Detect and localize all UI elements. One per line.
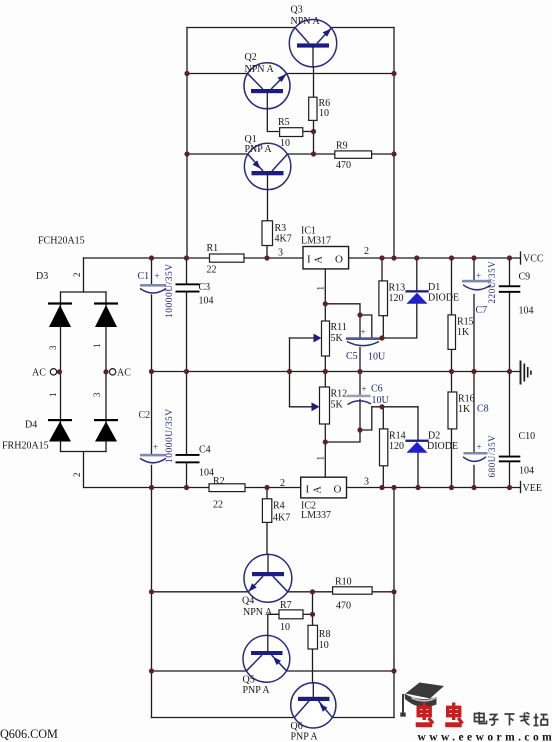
svg-text:LM317: LM317 — [301, 236, 331, 247]
svg-text:C6: C6 — [371, 384, 383, 395]
svg-text:5K: 5K — [331, 333, 344, 344]
capacitor C3 (ceramic) — [176, 283, 200, 285]
wire mid ground rail y=371.5 — [152, 371, 520, 373]
wire C9 bottom lead — [509, 293, 511, 372]
svg-text:R5: R5 — [278, 117, 290, 128]
svg-text:DIODE: DIODE — [428, 293, 459, 304]
svg-text:+: + — [477, 442, 482, 452]
wire bridge D3 top — [61, 291, 107, 293]
wire rail y=73.5 right of Q2 — [286, 73, 394, 75]
svg-text:Q606.COM: Q606.COM — [0, 727, 58, 741]
wire rail to R8 top — [312, 592, 314, 626]
resistor R9 — [335, 151, 372, 158]
transistor Q4 — [244, 554, 292, 602]
wire C4 upper lead — [186, 372, 188, 455]
wire right vertical x=394 top section — [393, 28, 395, 259]
svg-text:3: 3 — [364, 477, 369, 488]
wire R5 right to node — [303, 131, 314, 133]
capacitor C8 (electrolytic 680U/35V) — [464, 452, 488, 455]
svg-text:120: 120 — [389, 293, 404, 304]
svg-text:PNP A: PNP A — [291, 732, 319, 742]
wire R4 bottom to Q4 base — [266, 522, 268, 572]
svg-text:2: 2 — [280, 478, 285, 489]
wire C5 bottom lead to mid rail — [359, 348, 361, 372]
resistor R1 — [210, 254, 245, 262]
wire D2 bottom lead — [417, 453, 419, 487]
ground symbol — [520, 361, 522, 385]
svg-text:1: 1 — [316, 456, 326, 461]
wire R14 bottom lead — [382, 466, 384, 488]
svg-text:104: 104 — [519, 306, 534, 317]
wire rail y=258 bridge to R1 — [84, 257, 210, 259]
capacitor C5 (electrolytic 10U) — [346, 337, 381, 340]
wire R13 top lead — [381, 258, 383, 281]
wire C5 side jog — [360, 315, 372, 337]
svg-text:Q5: Q5 — [243, 675, 255, 686]
svg-text:1: 1 — [316, 286, 326, 291]
svg-text:D4: D4 — [25, 420, 37, 431]
wire R14 top lead — [382, 407, 384, 429]
capacitor C2 (electrolytic) — [140, 454, 166, 457]
AC terminal right — [109, 369, 115, 375]
wire top rail y=27.5 right of Q3 — [331, 27, 394, 29]
watermark graduation cap — [400, 683, 444, 717]
svg-text:22: 22 — [207, 265, 217, 276]
svg-text:D3: D3 — [36, 271, 48, 282]
wire R3 bottom to rail y=258 — [266, 246, 268, 259]
terminal tick VEE — [520, 482, 522, 493]
svg-text:D2: D2 — [428, 431, 440, 442]
wire rail y=154 left of Q1 — [187, 153, 248, 155]
resistor R6 — [309, 97, 317, 120]
resistor R10 — [333, 587, 373, 594]
wire y=406.8 jog to D2 — [372, 406, 418, 408]
watermark site name characters — [475, 712, 548, 726]
resistor R14 — [380, 429, 388, 466]
svg-text:R13: R13 — [389, 283, 406, 294]
svg-text:NPN A: NPN A — [291, 16, 321, 27]
svg-text:C7: C7 — [476, 305, 488, 316]
IC U2 LM337 regulator box — [301, 477, 347, 498]
svg-text:Q2: Q2 — [245, 52, 257, 63]
svg-text:C5: C5 — [346, 351, 358, 362]
svg-text:104: 104 — [199, 296, 214, 307]
svg-text:4K7: 4K7 — [275, 234, 292, 245]
resistor R5 — [280, 128, 303, 137]
svg-text:2: 2 — [72, 473, 82, 478]
svg-text:R16: R16 — [458, 394, 475, 405]
wire mid rail to R12 top — [324, 372, 326, 388]
svg-text:10: 10 — [319, 108, 329, 119]
wire R15 bottom lead — [451, 349, 453, 371]
svg-text:R8: R8 — [319, 629, 331, 640]
wire rail y=487.5 bridge to R2 — [84, 487, 210, 489]
wire rail y=591.8 left of Q4 — [152, 591, 249, 593]
bridge D3 right diode — [94, 302, 118, 304]
wire R12 bottom to IC2 ADJ — [324, 424, 326, 477]
resistor R8 — [308, 625, 318, 649]
svg-text:O: O — [335, 254, 343, 266]
svg-text:C2: C2 — [139, 410, 151, 421]
wire C4 lower lead — [186, 463, 188, 487]
wire Q1 base to R3 — [267, 175, 269, 221]
wire R16 top lead — [451, 372, 453, 393]
wire C7 bottom lead — [473, 295, 475, 372]
wire C6 top lead from mid rail — [359, 372, 361, 396]
svg-text:A: A — [313, 486, 324, 494]
wire output rail y=487.5 IC2 to VEE — [347, 487, 521, 489]
svg-text:10: 10 — [280, 622, 290, 633]
capacitor C10 (ceramic) — [499, 456, 521, 458]
resistor R2 — [209, 484, 245, 492]
wire IC1 ADJ pin to R11 — [324, 269, 326, 321]
svg-text:10000U/35V: 10000U/35V — [165, 263, 175, 318]
svg-text:10000U/35V: 10000U/35V — [165, 408, 175, 463]
svg-text:22: 22 — [213, 500, 223, 511]
wire C6 side jog — [360, 407, 372, 430]
wire rail y=73.5 left of Q2 — [187, 73, 248, 75]
svg-text:+: + — [362, 384, 367, 394]
bridge D4 left diode — [48, 419, 72, 421]
svg-text:NPN A: NPN A — [245, 64, 275, 75]
wire left vertical x=151.5 bottom section — [151, 488, 153, 718]
svg-text:1: 1 — [92, 344, 102, 349]
svg-text:VCC: VCC — [523, 254, 544, 265]
svg-text:3: 3 — [92, 392, 102, 397]
svg-text:R4: R4 — [273, 501, 285, 512]
resistor R13 — [379, 281, 388, 316]
wire ADJ2 node to C6 branch — [325, 430, 360, 442]
wire bridge left branch x=60.5 — [60, 292, 62, 452]
diode D2 — [405, 440, 428, 442]
capacitor C9 (ceramic) — [499, 285, 521, 287]
svg-text:AC: AC — [32, 368, 46, 379]
wire R4 top lead — [266, 488, 268, 499]
wire C1 upper lead — [151, 258, 153, 284]
svg-text:2: 2 — [72, 273, 82, 278]
svg-text:NPN A: NPN A — [243, 607, 273, 618]
transistor Q1 — [244, 143, 290, 189]
svg-text:Q6: Q6 — [291, 721, 303, 732]
svg-text:PNP A: PNP A — [243, 685, 271, 696]
svg-text:PNP A: PNP A — [245, 144, 273, 155]
wire right vertical x=394 bottom section — [393, 488, 395, 718]
bridge D4 right diode — [94, 419, 118, 421]
wire C10 top lead — [509, 372, 511, 456]
svg-text:470: 470 — [336, 160, 351, 171]
svg-text:C8: C8 — [477, 404, 489, 415]
svg-text:3: 3 — [48, 345, 58, 350]
svg-text:AC: AC — [117, 368, 131, 379]
wire C9 top lead — [509, 258, 511, 285]
wire R9 to right vertical — [372, 153, 394, 155]
wire C10 bottom lead — [509, 462, 511, 487]
wire bridge D4 riser — [83, 452, 85, 488]
svg-text:C9: C9 — [519, 272, 531, 283]
svg-text:+: + — [361, 327, 366, 337]
wire bridge D3 riser — [83, 258, 85, 292]
diode D1 — [405, 290, 428, 292]
svg-text:A: A — [314, 256, 325, 264]
svg-text:10: 10 — [319, 640, 329, 651]
wire R15 top lead — [451, 258, 453, 315]
wire R12 wiper lead — [290, 406, 315, 408]
wire R10 to right vertical — [372, 591, 394, 593]
svg-text:470: 470 — [336, 601, 351, 612]
svg-text:R11: R11 — [331, 322, 347, 333]
transistor Q5 — [243, 635, 290, 682]
bridge D3 left diode — [48, 302, 72, 304]
wire C6 bottom lead — [359, 400, 361, 431]
svg-text:R14: R14 — [389, 431, 406, 442]
svg-text:1K: 1K — [457, 327, 470, 338]
wire R16 bottom lead — [451, 429, 453, 488]
watermark chongchong characters — [416, 703, 463, 725]
svg-text:1K: 1K — [458, 404, 471, 415]
wire Q3 base to R6 — [313, 48, 315, 98]
wire C7 top lead — [473, 258, 475, 280]
svg-text:R10: R10 — [335, 577, 352, 588]
svg-text:680U/35V: 680U/35V — [487, 435, 497, 478]
wire bridge right branch x=106 — [105, 292, 107, 452]
wire left vertical x=187 top section — [186, 28, 188, 259]
transistor Q6 — [291, 683, 336, 728]
terminal tick VCC — [520, 252, 522, 264]
capacitor C4 (ceramic) — [176, 454, 200, 456]
resistor R7 — [279, 610, 303, 619]
svg-text:10U: 10U — [368, 352, 386, 363]
svg-text:C3: C3 — [199, 282, 211, 293]
wire C1 lower lead to mid rail — [151, 295, 153, 372]
svg-text:Q4: Q4 — [242, 596, 254, 607]
wire R1 to IC1 input — [244, 257, 303, 259]
wire output rail y=258 IC1 to VCC — [349, 257, 521, 259]
resistor R4 — [262, 499, 271, 523]
svg-text:I: I — [307, 254, 311, 266]
wire top rail y=27.5 left of Q3 — [187, 27, 295, 29]
wire C8 bottom lead — [473, 466, 475, 488]
wire C8 top lead — [473, 372, 475, 453]
svg-text:120: 120 — [389, 441, 404, 452]
svg-text:4K7: 4K7 — [273, 513, 290, 524]
wire rail y=591.8 Q4 to R10 — [288, 591, 333, 593]
wire bridge D4 bottom — [61, 451, 107, 453]
wire bottom rail y=717.5 right of Q6 — [332, 717, 394, 719]
potentiometer R11 — [322, 321, 330, 356]
svg-text:D1: D1 — [428, 282, 440, 293]
svg-text:5K: 5K — [331, 399, 344, 410]
svg-text:R9: R9 — [336, 141, 348, 152]
transistor Q2 — [244, 63, 290, 109]
svg-text:1: 1 — [48, 393, 58, 398]
svg-text:2: 2 — [364, 246, 369, 257]
svg-text:R1: R1 — [207, 243, 219, 254]
svg-text:R7: R7 — [280, 600, 292, 611]
svg-text:+: + — [153, 442, 158, 452]
wire Q2 base to R5 — [267, 93, 279, 132]
wire Q5 base to R7 — [268, 614, 279, 651]
svg-text:FRH20A15: FRH20A15 — [2, 441, 49, 452]
wire rail y=671 right of Q5 — [287, 670, 394, 672]
capacitor C7 (electrolytic 220U/35V) — [462, 280, 491, 283]
wire D1 bottom lead to C5 node — [381, 304, 417, 338]
svg-text:104: 104 — [199, 468, 214, 479]
junction dots — [184, 71, 189, 76]
resistor R15 — [448, 315, 456, 350]
svg-text:VEE: VEE — [523, 483, 542, 494]
capacitor C1 (electrolytic) — [140, 284, 166, 287]
svg-text:C10: C10 — [519, 431, 536, 442]
svg-text:R2: R2 — [213, 476, 225, 487]
svg-text:C4: C4 — [199, 445, 211, 456]
wire ADJ node to C5 branch — [325, 304, 360, 338]
wire rail y=154 Q1 to R9 — [287, 153, 335, 155]
svg-text:DIODE: DIODE — [427, 441, 458, 452]
svg-text:I: I — [306, 484, 310, 496]
wire wiper link vertical x=289.5 — [289, 338, 291, 407]
svg-text:3: 3 — [278, 248, 283, 259]
svg-text:C1: C1 — [138, 271, 150, 282]
svg-text:O: O — [334, 484, 342, 496]
svg-text:R12: R12 — [331, 389, 348, 400]
wire R8 bottom to Q6 base — [312, 649, 314, 697]
capacitor C6 (electrolytic 10U) — [347, 395, 371, 398]
wire R6 bottom through R5 node to rail y=154 — [313, 120, 315, 154]
wire R2 to IC2 input — [245, 487, 301, 489]
svg-text:+: + — [155, 271, 160, 281]
resistor R3 — [262, 221, 273, 246]
wire D2 top lead — [417, 407, 419, 440]
wire C2 upper lead — [151, 372, 153, 454]
wire R11 wiper lead — [290, 337, 317, 339]
wire C3 to mid rail — [186, 293, 188, 372]
svg-text:+: + — [476, 271, 481, 281]
svg-text:LM337: LM337 — [301, 510, 331, 521]
svg-text:R3: R3 — [275, 223, 287, 234]
potentiometer R12 — [320, 387, 330, 424]
wire rail y=671 left of Q5 — [152, 670, 247, 672]
wire bottom rail y=717.5 left of Q6 — [152, 717, 295, 719]
wire R13 bottom lead — [382, 316, 384, 338]
wire C3 upper lead — [186, 258, 188, 283]
svg-text:FCH20A15: FCH20A15 — [38, 236, 85, 247]
svg-text:220U/35V: 220U/35V — [487, 261, 497, 304]
wire D1 top lead — [416, 258, 418, 290]
svg-text:10U: 10U — [372, 395, 390, 406]
svg-text:www.eeworm.com: www.eeworm.com — [418, 732, 552, 742]
svg-text:Q3: Q3 — [291, 5, 303, 16]
wire C2 lower lead — [151, 466, 153, 488]
wire R11 bottom to mid rail — [324, 356, 326, 372]
transistor Q3 — [289, 20, 336, 67]
svg-text:104: 104 — [519, 466, 534, 477]
IC U1 LM317 regulator box — [303, 247, 349, 269]
resistor R16 — [448, 392, 457, 429]
wire R7 right to node — [303, 613, 313, 615]
